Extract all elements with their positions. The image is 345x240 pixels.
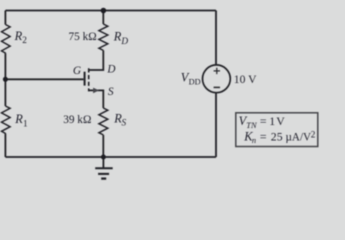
ground bar 1 [95,167,113,169]
label RS [113,111,126,128]
svg-text:25: 25 [271,129,283,143]
box line 2: Kn = 25 uA/V^2 [243,129,316,145]
svg-text:10 V: 10 V [234,73,257,86]
svg-text:1: 1 [269,114,275,128]
ground stem [102,157,104,168]
svg-text:µA/V: µA/V [286,129,312,143]
svg-text:R: R [14,112,23,126]
label R1 [14,112,28,129]
svg-text:D: D [106,63,115,75]
wire: top rail [5,10,216,12]
svg-text:n: n [252,136,256,145]
svg-text:DD: DD [189,78,201,87]
label VDD [181,70,201,86]
voltage source minus sign [214,86,220,88]
wire: left rail upper (top to R2) [4,11,6,25]
transistor channel (dashed) [88,68,90,91]
svg-text:39 kΩ: 39 kΩ [63,114,91,126]
node: top junction of RD branch [101,8,107,14]
node: gate junction on left rail [3,77,8,82]
wire: RD to drain corner [89,50,104,70]
label RD [113,29,129,47]
voltage source plus sign [214,68,220,74]
label R2 [14,29,28,46]
box line 1: VTN = 1 V [239,114,286,130]
svg-text:1: 1 [23,120,28,130]
resistor R1 [2,106,11,134]
wire: gate lead from left rail node [5,78,83,80]
wire: drain branch top (top rail to RD) [102,11,104,25]
transistor source arrowhead [93,88,99,94]
svg-text:75 kΩ: 75 kΩ [69,31,97,43]
svg-text:2: 2 [22,36,27,46]
wire: source stub and source branch down to RS [89,90,104,108]
parameter box [236,113,318,147]
svg-text:R: R [14,29,23,43]
wire: bottom rail [5,156,216,158]
svg-text:S: S [108,86,114,98]
voltage source VDD circle [203,65,231,93]
resistor RS [99,108,108,135]
svg-text:D: D [120,37,128,47]
svg-text:=: = [260,129,267,143]
wire: right rail lower (VDD source to bottom rail) [215,93,217,157]
ground bar 2 [98,173,109,175]
node: bottom junction at ground [101,155,106,160]
resistor RD [99,24,108,50]
resistor R2 [2,25,11,54]
wire: right rail upper (top rail to VDD source) [215,11,217,65]
svg-text:V: V [276,114,285,128]
svg-text:G: G [73,65,81,77]
wire: left rail middle (R2 to R1) [4,53,6,106]
wire: left rail lower (R1 to bottom) [4,134,6,157]
svg-text:S: S [122,119,127,129]
transistor gate bar [84,72,86,86]
ground bar 3 [101,177,106,179]
svg-text:=: = [260,114,267,128]
wire: RS to bottom rail [102,135,104,157]
svg-text:2: 2 [311,130,316,140]
